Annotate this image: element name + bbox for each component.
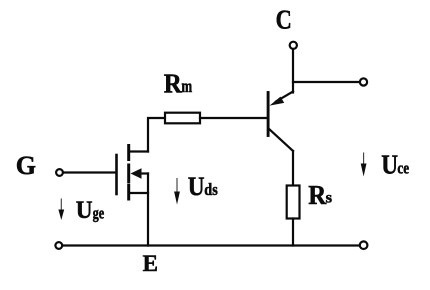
svg-text:ge: ge [93, 203, 105, 222]
wire PNP collector diagonal [269, 129, 293, 152]
transistor Q1 MOSFET body arrow [131, 168, 142, 179]
svg-text:U: U [381, 150, 398, 180]
svg-text:m: m [181, 76, 192, 96]
svg-text:G: G [16, 151, 36, 180]
wire Rm to PNP base [200, 117, 266, 119]
wire source down to rail [147, 174, 149, 246]
svg-text:ce: ce [397, 159, 409, 178]
svg-text:R: R [308, 179, 327, 210]
node E terminal circle bottom left [55, 242, 62, 249]
node output terminal circle top right [360, 78, 367, 85]
arrow Uge [58, 199, 64, 221]
transistor Q1 MOSFET channel segment middle [127, 165, 130, 182]
transistor Q1 MOSFET channel segment bottom [127, 186, 130, 200]
resistor Rm body [165, 113, 200, 124]
wire MOSFET drain stub [130, 150, 149, 152]
wire collector output [293, 81, 359, 83]
resistor Rs body [287, 186, 300, 219]
wire bottom emitter rail [63, 244, 359, 246]
wire C terminal down [292, 50, 294, 93]
svg-text:E: E [143, 251, 158, 276]
svg-text:ds: ds [204, 180, 218, 199]
wire PNP emitter diagonal [276, 92, 293, 102]
svg-text:U: U [188, 171, 205, 201]
svg-text:s: s [326, 190, 332, 207]
wire MOSFET body stub [140, 172, 148, 174]
wire drain up to Rm [148, 118, 165, 152]
arrow Uce [361, 153, 367, 177]
wire Rs to rail [292, 219, 294, 246]
wire gate lead [64, 171, 116, 173]
node G terminal circle [56, 169, 63, 176]
svg-text:C: C [276, 4, 292, 35]
transistor Q2 PNP base bar [267, 93, 270, 136]
node C terminal circle [290, 42, 297, 49]
arrow Uds [174, 178, 180, 205]
svg-text:U: U [76, 195, 93, 224]
transistor Q1 MOSFET channel segment top [127, 146, 130, 160]
wire collector to Rs [292, 151, 294, 186]
transistor Q2 PNP emitter arrow [270, 97, 285, 106]
transistor Q1 MOSFET gate bar [115, 155, 118, 194]
wire MOSFET source stub [130, 192, 149, 194]
svg-text:R: R [164, 68, 183, 99]
node output terminal circle bottom right [360, 241, 368, 249]
